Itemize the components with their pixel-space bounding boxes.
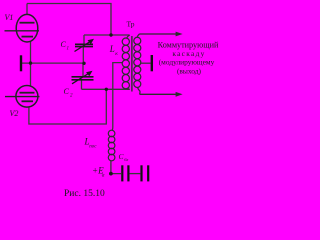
svg-text:каскаду: каскаду (172, 49, 205, 58)
svg-text:C: C (64, 87, 70, 96)
svg-text:Тр: Тр (127, 20, 135, 29)
svg-text:V2: V2 (10, 109, 19, 118)
svg-text:(выход): (выход) (177, 66, 202, 75)
svg-text:а: а (102, 173, 105, 179)
svg-text:L: L (109, 44, 115, 54)
svg-text:к: к (115, 51, 118, 57)
svg-text:V1: V1 (5, 13, 14, 22)
svg-text:1: 1 (67, 47, 70, 52)
svg-text:Рис. 15.10: Рис. 15.10 (64, 189, 105, 199)
svg-text:пос: пос (89, 145, 97, 150)
svg-text:бл: бл (124, 157, 128, 162)
svg-text:(модулирующему: (модулирующему (159, 58, 215, 67)
